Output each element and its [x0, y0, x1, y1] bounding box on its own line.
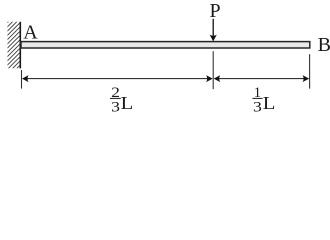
fixed support wall face line [19, 22, 21, 69]
dimension line 1/3 L [215, 78, 309, 80]
svg-text:A: A [23, 22, 38, 44]
fraction 2/3 bar [110, 97, 121, 99]
beam AB [21, 42, 310, 48]
extension line below load point [212, 51, 214, 89]
dimension line 2/3 L [23, 78, 212, 80]
arrowhead right at load point [206, 75, 213, 82]
extension line below B [309, 54, 311, 88]
svg-text:3: 3 [253, 99, 262, 115]
arrowhead left at load point [214, 75, 221, 82]
load P arrow [210, 19, 217, 42]
fraction 1/3 bar [252, 97, 262, 99]
extension line below A [21, 70, 23, 89]
svg-text:3: 3 [111, 99, 120, 115]
svg-text:L: L [121, 93, 134, 113]
svg-text:P: P [210, 0, 221, 22]
svg-text:L: L [263, 93, 276, 113]
fixed support wall hatching [2, 4, 26, 88]
svg-text:B: B [318, 34, 330, 56]
arrowhead left at A [22, 75, 29, 82]
arrowhead right at B [303, 75, 310, 82]
